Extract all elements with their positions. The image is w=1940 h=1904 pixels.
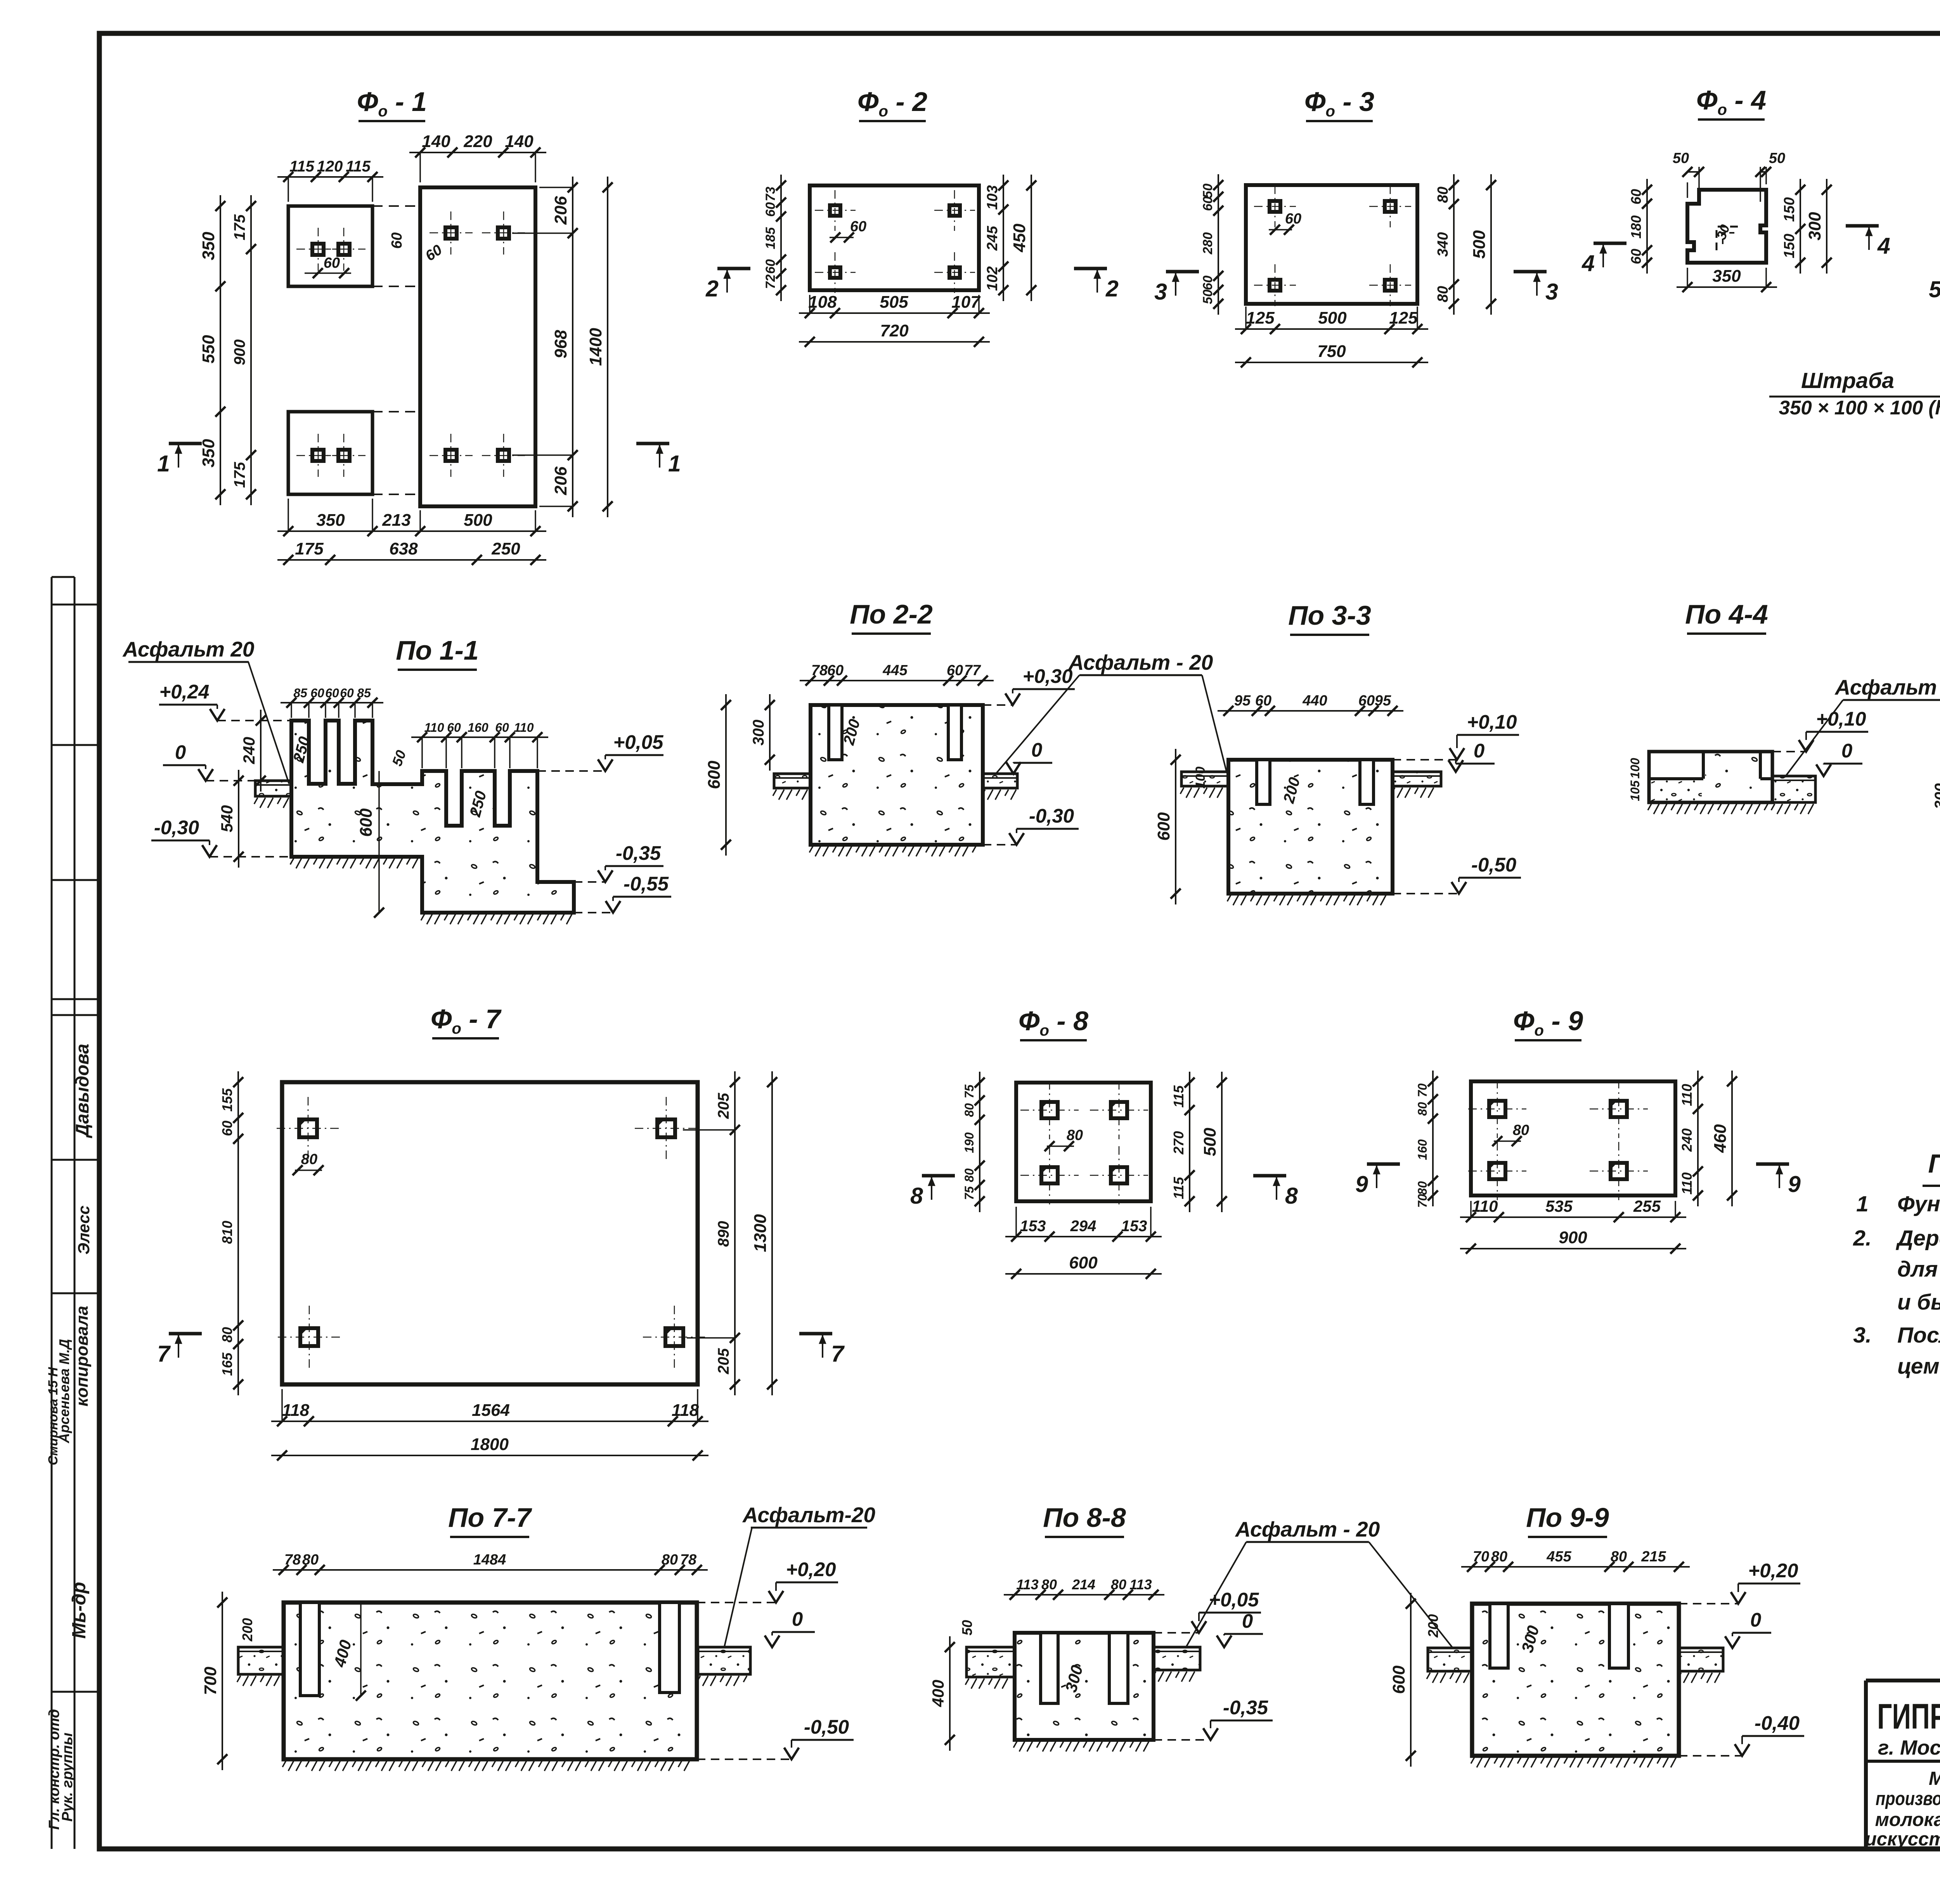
Po 3-3 bolt slots <box>1257 760 1270 804</box>
Fo-2 bottom dims <box>799 312 990 314</box>
svg-text:60: 60 <box>1628 189 1644 204</box>
Fo-9 bottom dims <box>1460 1216 1686 1218</box>
svg-text:505: 505 <box>880 293 908 312</box>
Fo-7 pad <box>282 1082 698 1384</box>
svg-text:0: 0 <box>175 741 186 763</box>
Po 9-9 body <box>1472 1604 1679 1756</box>
svg-text:50: 50 <box>1200 289 1215 304</box>
Fo-8 anchor pockets <box>1041 1102 1058 1118</box>
svg-text:185: 185 <box>763 227 778 249</box>
svg-text:110: 110 <box>1679 1172 1695 1194</box>
svg-text:Штраба: Штраба <box>1801 368 1894 393</box>
Fo-8 pad <box>1016 1083 1151 1201</box>
Po 4-4 left asphalt cell <box>1651 780 1702 801</box>
svg-text:50: 50 <box>1673 150 1689 166</box>
svg-text:140: 140 <box>505 132 533 151</box>
svg-text:103: 103 <box>984 185 1001 210</box>
Po 1-1 dim 110-60-160-60-110 <box>411 736 548 738</box>
svg-text:500: 500 <box>1318 308 1347 327</box>
svg-text:445: 445 <box>882 662 908 679</box>
Fo-3 section marks 3 <box>1166 270 1199 274</box>
Po 7-7 bolt slots <box>300 1603 319 1696</box>
svg-text:300: 300 <box>1932 783 1940 809</box>
svg-text:1800: 1800 <box>471 1435 509 1454</box>
svg-text:По 9-9: По 9-9 <box>1526 1502 1609 1533</box>
svg-text:0: 0 <box>1474 740 1484 762</box>
svg-text:для анкерных болтов и штр: для анкерных болтов и штрабы, должны име… <box>1897 1257 1940 1282</box>
svg-text:340: 340 <box>1435 232 1451 256</box>
Po 4-4 body <box>1649 752 1772 802</box>
svg-text:214: 214 <box>1072 1577 1095 1592</box>
Fo-7 section marks 7 <box>169 1332 202 1336</box>
svg-text:По 4-4: По 4-4 <box>1685 599 1768 629</box>
svg-text:294: 294 <box>1070 1218 1096 1235</box>
Fo-1 right dim 1400 <box>607 177 608 517</box>
svg-text:200: 200 <box>1425 1614 1441 1638</box>
svg-text:113: 113 <box>1016 1577 1038 1592</box>
svg-text:Фо - 4: Фо - 4 <box>1696 85 1766 118</box>
Fo-7 bottom dims <box>271 1421 708 1422</box>
svg-text:7: 7 <box>157 1341 171 1367</box>
svg-text:Фо - 2: Фо - 2 <box>857 87 927 120</box>
svg-text:8: 8 <box>910 1183 923 1209</box>
svg-text:153: 153 <box>1121 1218 1147 1235</box>
svg-text:60: 60 <box>310 686 324 700</box>
Fo-2 left dim chain <box>780 175 782 301</box>
Fo-1 left dim 350-550-350 <box>220 195 221 505</box>
svg-text:60: 60 <box>1358 693 1375 709</box>
Po 2-2 levels <box>1005 693 1020 705</box>
svg-text:80: 80 <box>1415 1181 1429 1195</box>
Fo-9 right dims <box>1697 1071 1699 1206</box>
svg-text:85: 85 <box>357 686 371 700</box>
svg-text:По 1-1: По 1-1 <box>396 635 479 665</box>
svg-text:125: 125 <box>1389 308 1418 327</box>
svg-text:180: 180 <box>1628 215 1644 239</box>
Fo-3 left dim chain <box>1218 174 1219 315</box>
svg-text:60: 60 <box>1200 196 1215 211</box>
svg-text:цементным раствором состава: цементным раствором состава 1:2 на цемен… <box>1897 1354 1940 1379</box>
svg-text:440: 440 <box>1302 693 1327 709</box>
svg-text:150: 150 <box>1781 234 1798 258</box>
svg-text:155: 155 <box>219 1088 235 1112</box>
svg-text:500: 500 <box>1200 1128 1219 1156</box>
svg-text:80: 80 <box>1067 1127 1083 1143</box>
svg-text:60: 60 <box>763 259 778 274</box>
svg-text:190: 190 <box>962 1132 976 1153</box>
svg-text:213: 213 <box>382 511 411 530</box>
svg-text:550: 550 <box>199 335 218 364</box>
Po 7-7 body <box>284 1603 697 1759</box>
svg-text:60: 60 <box>1255 693 1271 709</box>
Po 9-9 levels <box>1731 1592 1746 1604</box>
svg-text:производительностью 6 тонн: производительностью 6 тонн <box>1876 1788 1940 1809</box>
svg-text:115: 115 <box>1171 1176 1187 1199</box>
svg-text:Деревянные пробки, устанавли: Деревянные пробки, устанавливаемые для о… <box>1895 1226 1940 1251</box>
Fo-1 right dim 206-968-206 <box>572 177 573 517</box>
svg-text:60: 60 <box>219 1121 235 1136</box>
svg-text:+0,30: +0,30 <box>1022 665 1072 687</box>
Fo-7 anchor pockets <box>299 1119 317 1137</box>
Fo-8 bottom dims <box>1005 1236 1162 1237</box>
Fo-4 bottom dim 350 <box>1677 286 1777 288</box>
svg-text:60: 60 <box>389 232 405 249</box>
Po 1-1 top dim 85-60-60-60-85 <box>281 702 383 703</box>
svg-text:-0,35: -0,35 <box>616 842 661 864</box>
svg-text:Фо - 8: Фо - 8 <box>1018 1006 1088 1039</box>
Po 2-2 left dims <box>725 694 727 856</box>
Fo-2 anchor pockets <box>830 205 840 216</box>
svg-text:4: 4 <box>1581 251 1595 276</box>
svg-text:60: 60 <box>1200 275 1215 290</box>
Po 1-1 level +0.24 <box>210 709 225 721</box>
svg-text:300: 300 <box>750 720 767 746</box>
svg-text:700: 700 <box>201 1667 220 1695</box>
svg-text:3: 3 <box>1545 279 1558 305</box>
svg-text:60: 60 <box>325 686 339 700</box>
svg-text:110: 110 <box>1472 1197 1498 1215</box>
Fo-3 anchor pockets <box>1270 201 1280 212</box>
svg-text:118: 118 <box>282 1401 310 1420</box>
svg-text:70: 70 <box>1473 1549 1489 1565</box>
Fo-1 bottom dim 175-638-250 <box>277 559 546 561</box>
svg-text:80: 80 <box>962 1103 976 1117</box>
Po 8-8 bolt slots <box>1041 1633 1058 1703</box>
svg-text:1: 1 <box>668 451 681 476</box>
svg-text:240: 240 <box>240 737 258 764</box>
Fo-1 bottom dim 350-213-500 <box>277 530 546 532</box>
svg-text:60: 60 <box>947 662 963 679</box>
Po 8-8 body <box>1015 1633 1154 1740</box>
svg-text:+0,20: +0,20 <box>786 1558 836 1580</box>
svg-text:Фо - 3: Фо - 3 <box>1304 87 1374 120</box>
svg-text:0: 0 <box>1031 739 1042 761</box>
svg-text:215: 215 <box>1641 1549 1666 1565</box>
svg-text:60: 60 <box>495 721 509 735</box>
svg-text:600: 600 <box>1389 1665 1408 1694</box>
Po 1-1 level 0 <box>198 769 213 781</box>
svg-text:2: 2 <box>1105 276 1119 301</box>
svg-text:78: 78 <box>680 1552 697 1568</box>
svg-text:110: 110 <box>514 721 533 735</box>
Fo-9 left dim chain <box>1432 1071 1434 1206</box>
svg-text:100: 100 <box>1628 758 1642 779</box>
svg-text:Фо - 7: Фо - 7 <box>431 1004 502 1037</box>
svg-text:80: 80 <box>662 1552 678 1568</box>
Po 3-3 asphalt strips <box>1181 772 1228 786</box>
Fo-2 section marks 2 <box>717 267 750 270</box>
Fo-3 bottom dims <box>1235 328 1428 330</box>
svg-text:70: 70 <box>1415 1083 1429 1097</box>
svg-text:60: 60 <box>763 202 778 217</box>
svg-text:175: 175 <box>231 214 248 240</box>
svg-text:300: 300 <box>1805 212 1824 241</box>
svg-text:60: 60 <box>827 662 844 679</box>
svg-text:1400: 1400 <box>586 328 605 366</box>
svg-text:80: 80 <box>1491 1549 1507 1565</box>
svg-text:+0,05: +0,05 <box>1209 1589 1259 1611</box>
svg-text:175: 175 <box>231 462 248 488</box>
svg-text:205: 205 <box>715 1093 732 1119</box>
svg-text:1: 1 <box>157 451 170 476</box>
svg-text:150: 150 <box>1781 197 1798 222</box>
svg-text:77: 77 <box>964 662 981 679</box>
Po 9-9 bolt slots <box>1490 1604 1508 1668</box>
svg-text:-0,35: -0,35 <box>1223 1696 1268 1719</box>
Po 2-2 asphalt strips <box>774 774 811 788</box>
svg-text:2: 2 <box>705 276 719 301</box>
svg-text:Фо - 1: Фо - 1 <box>357 87 427 120</box>
svg-text:255: 255 <box>1633 1197 1661 1215</box>
Fo-2 pad <box>810 185 979 290</box>
svg-text:153: 153 <box>1020 1218 1046 1235</box>
svg-text:80: 80 <box>219 1327 235 1343</box>
Po 8-8 asphalt strips <box>967 1647 1015 1677</box>
svg-text:60: 60 <box>324 255 340 271</box>
Fo-4 top 50 dims <box>1687 182 1688 198</box>
svg-text:50: 50 <box>1769 150 1785 166</box>
Fo-4 pad outline <box>1687 190 1766 263</box>
Po 1-1 level +0.05 <box>598 759 613 771</box>
svg-text:+0,20: +0,20 <box>1748 1559 1798 1582</box>
Fo-4 section marks 4 <box>1594 242 1626 245</box>
svg-text:80: 80 <box>1435 286 1451 302</box>
svg-text:Фо - 9: Фо - 9 <box>1513 1006 1583 1039</box>
Fo-4 inner dashed groove <box>1717 227 1741 250</box>
svg-text:70: 70 <box>1415 1194 1429 1208</box>
svg-text:400: 400 <box>929 1680 947 1707</box>
svg-text:+0,05: +0,05 <box>613 731 663 753</box>
Fo-1 section marks 1 <box>169 442 202 445</box>
Fo-1 big pad <box>420 187 535 506</box>
svg-text:118: 118 <box>672 1401 699 1420</box>
Fo-3 right dims <box>1453 174 1455 315</box>
svg-text:107: 107 <box>951 293 981 312</box>
svg-text:80: 80 <box>962 1168 976 1182</box>
svg-text:75: 75 <box>962 1186 976 1200</box>
Po 3-3 left dims <box>1175 749 1176 904</box>
Po 7-7 levels <box>769 1591 783 1603</box>
svg-text:72: 72 <box>763 274 778 289</box>
svg-text:5: 5 <box>1929 277 1940 302</box>
svg-text:160: 160 <box>468 721 488 735</box>
Fo-9 section marks 9 <box>1367 1162 1400 1166</box>
Po 3-3 body <box>1228 760 1393 894</box>
svg-text:140: 140 <box>422 132 450 151</box>
Fo-3 pad <box>1246 185 1417 304</box>
svg-text:0: 0 <box>1841 740 1852 762</box>
svg-text:Давыдова: Давыдова <box>72 1044 92 1138</box>
Fo-1 top dim 115-120-115 <box>277 176 383 178</box>
svg-text:Рук. группы: Рук. группы <box>59 1732 76 1821</box>
svg-text:810: 810 <box>219 1221 235 1244</box>
svg-text:220: 220 <box>463 132 492 151</box>
svg-text:По 2-2: По 2-2 <box>850 599 933 629</box>
svg-text:60: 60 <box>1628 249 1644 264</box>
svg-text:720: 720 <box>880 321 909 340</box>
svg-text:73: 73 <box>763 187 778 201</box>
svg-text:искусственного осеменения: искусственного осеменения <box>1865 1829 1940 1850</box>
svg-text:108: 108 <box>808 293 837 312</box>
svg-text:2.: 2. <box>1853 1226 1872 1251</box>
Fo-8 right dims <box>1189 1072 1190 1212</box>
svg-text:85: 85 <box>293 686 308 700</box>
svg-text:Фундаменты выполнять из бето: Фундаменты выполнять из бетона марки 200… <box>1897 1192 1940 1216</box>
svg-text:Смирнова 15 Н: Смирнова 15 Н <box>46 1367 61 1465</box>
Po 1-1 level -0.30 <box>202 845 217 857</box>
svg-text:1484: 1484 <box>473 1552 506 1568</box>
svg-text:50: 50 <box>959 1620 975 1635</box>
svg-text:600: 600 <box>705 761 724 789</box>
svg-text:535: 535 <box>1545 1197 1573 1215</box>
svg-text:500: 500 <box>1470 230 1489 259</box>
svg-text:500: 500 <box>464 511 492 530</box>
svg-text:165: 165 <box>219 1352 235 1376</box>
svg-text:240: 240 <box>1679 1128 1695 1152</box>
svg-text:копировала: копировала <box>73 1306 92 1407</box>
Fo-9 pad <box>1471 1081 1675 1195</box>
Fo-1 top dim 140-220-140 <box>409 152 546 153</box>
svg-text:+0,10: +0,10 <box>1467 711 1517 733</box>
svg-text:-0,30: -0,30 <box>154 816 199 839</box>
svg-text:890: 890 <box>715 1221 732 1247</box>
svg-text:110: 110 <box>424 721 444 735</box>
Fo-7 left dim chain <box>237 1071 239 1395</box>
svg-text:115: 115 <box>346 158 371 175</box>
svg-text:80: 80 <box>1611 1549 1627 1565</box>
svg-text:Элесс: Элесс <box>74 1206 93 1254</box>
svg-text:8: 8 <box>1285 1183 1298 1209</box>
Po 8-8 levels <box>1192 1621 1206 1633</box>
Po 7-7 asphalt strips <box>238 1647 284 1674</box>
svg-text:600: 600 <box>1154 812 1173 841</box>
Po 9-9 top dim <box>1461 1566 1690 1568</box>
svg-text:350: 350 <box>1712 267 1741 286</box>
svg-text:80: 80 <box>1435 187 1451 203</box>
Fo-1 lower small pad <box>288 412 372 494</box>
svg-text:После установки и выверки: После установки и выверки анкерных болто… <box>1897 1323 1940 1348</box>
svg-text:80: 80 <box>1111 1577 1126 1592</box>
svg-text:4: 4 <box>1877 233 1890 259</box>
svg-text:молока в сутки с пунктом: молока в сутки с пунктом <box>1875 1809 1940 1830</box>
svg-text:1300: 1300 <box>751 1214 770 1252</box>
Po 7-7 left dims <box>222 1592 223 1770</box>
svg-text:60: 60 <box>447 721 461 735</box>
Po 4-4 ground hatch <box>1648 804 1651 810</box>
Po 4-4 asphalt right strip <box>1772 776 1815 802</box>
svg-text:9: 9 <box>1788 1171 1801 1197</box>
svg-text:80: 80 <box>1041 1577 1057 1592</box>
svg-text:По 8-8: По 8-8 <box>1043 1502 1126 1533</box>
Po 1-1 ground hatch <box>254 798 258 804</box>
svg-text:115: 115 <box>1171 1085 1187 1107</box>
Po 2-2 top dim <box>800 680 994 681</box>
svg-text:350: 350 <box>199 439 218 468</box>
svg-text:80: 80 <box>1415 1102 1429 1116</box>
svg-text:60: 60 <box>340 686 354 700</box>
svg-text:г. Москва: г. Москва <box>1878 1736 1940 1759</box>
Fo-1 upper small pad <box>288 206 372 286</box>
svg-text:80: 80 <box>301 1151 317 1168</box>
svg-text:350: 350 <box>199 232 218 260</box>
svg-text:113: 113 <box>1129 1577 1152 1592</box>
Po 9-9 asphalt strips <box>1428 1648 1472 1671</box>
left margin signature strip <box>51 577 53 1849</box>
Po 1-1 asphalt strip left <box>255 781 291 796</box>
Fo-8 section marks 8 <box>922 1174 955 1178</box>
svg-text:115: 115 <box>289 158 315 175</box>
Fo-1 left dim 175-900-175 <box>250 195 252 505</box>
svg-text:-0,50: -0,50 <box>804 1716 849 1738</box>
svg-text:900: 900 <box>1559 1228 1587 1247</box>
svg-text:1: 1 <box>1856 1192 1869 1216</box>
Po 2-2 body <box>811 705 983 845</box>
svg-text:102: 102 <box>984 266 1001 291</box>
Po 7-7 top dim <box>273 1569 708 1571</box>
svg-text:3: 3 <box>1154 279 1167 305</box>
Fo-4 right dims <box>1800 179 1801 274</box>
svg-text:450: 450 <box>1010 223 1029 253</box>
svg-text:75: 75 <box>962 1084 976 1098</box>
svg-text:По 3-3: По 3-3 <box>1288 600 1371 631</box>
svg-text:100: 100 <box>1193 767 1208 789</box>
Po 2-2 bolt slots <box>829 705 842 760</box>
svg-text:Мь-др: Мь-др <box>69 1582 90 1639</box>
svg-text:245: 245 <box>984 225 1001 251</box>
svg-text:350: 350 <box>316 511 345 530</box>
svg-text:250: 250 <box>491 539 520 558</box>
svg-text:78: 78 <box>284 1552 301 1568</box>
svg-text:Асфальт - 20: Асфальт - 20 <box>1235 1517 1380 1541</box>
Po 8-8 top dim <box>1004 1594 1164 1596</box>
svg-text:0: 0 <box>1750 1609 1761 1631</box>
svg-text:206: 206 <box>551 196 570 225</box>
Fo-8 left dim chain <box>979 1072 980 1212</box>
svg-text:900: 900 <box>231 340 248 366</box>
svg-text:Асфальт -20: Асфальт -20 <box>1834 675 1940 699</box>
svg-text:0: 0 <box>1242 1610 1253 1632</box>
svg-text:455: 455 <box>1546 1549 1571 1565</box>
svg-text:105: 105 <box>1628 780 1642 801</box>
Fo-1 dashed connection lines <box>372 205 420 207</box>
svg-text:и быть обернуты толем.: и быть обернуты толем. <box>1897 1290 1940 1315</box>
Po 3-3 top dim <box>1218 710 1403 712</box>
svg-text:540: 540 <box>218 805 236 832</box>
svg-text:1564: 1564 <box>472 1401 510 1420</box>
svg-text:460: 460 <box>1711 1124 1730 1153</box>
svg-text:Асфальт - 20: Асфальт - 20 <box>1068 650 1213 674</box>
svg-text:638: 638 <box>389 539 418 558</box>
Po 1-1 level -0.55 <box>606 901 620 913</box>
svg-text:968: 968 <box>551 330 570 359</box>
Po 4-4 levels <box>1799 740 1814 752</box>
svg-text:78: 78 <box>811 662 828 679</box>
svg-text:270: 270 <box>1171 1131 1187 1155</box>
svg-text:9: 9 <box>1355 1171 1368 1197</box>
Po 1-1 foundation body <box>291 721 574 913</box>
svg-text:3.: 3. <box>1853 1323 1872 1348</box>
svg-text:0: 0 <box>792 1608 803 1630</box>
svg-text:350 × 100 × 100 (h): 350 × 100 × 100 (h) <box>1779 397 1940 419</box>
svg-text:95: 95 <box>1234 693 1251 709</box>
svg-text:Асфальт 20: Асфальт 20 <box>122 637 255 661</box>
svg-text:Асфальт-20: Асфальт-20 <box>742 1503 875 1527</box>
svg-text:125: 125 <box>1246 308 1275 327</box>
Fo-9 anchor pockets <box>1489 1101 1505 1117</box>
svg-text:-0,40: -0,40 <box>1755 1712 1800 1734</box>
svg-text:160: 160 <box>1415 1139 1429 1160</box>
svg-text:120: 120 <box>317 158 343 175</box>
